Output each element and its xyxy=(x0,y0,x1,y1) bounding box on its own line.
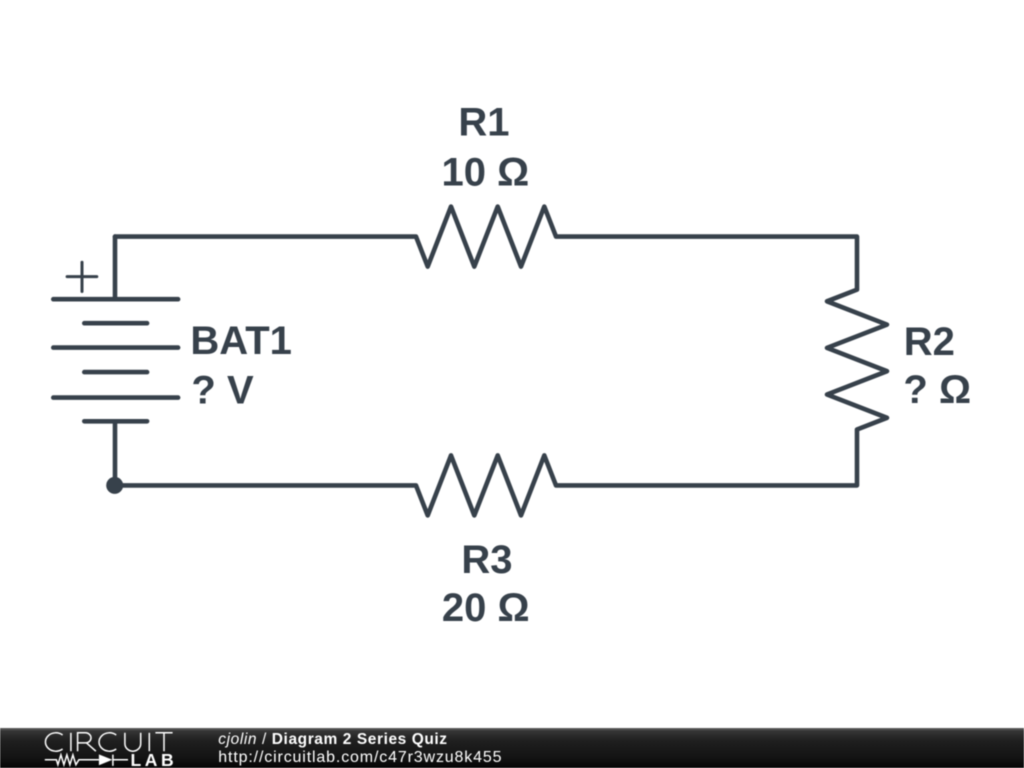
svg-text:? Ω: ? Ω xyxy=(903,368,971,412)
svg-text:R2: R2 xyxy=(904,320,955,364)
svg-text:R1: R1 xyxy=(458,100,509,144)
svg-text:BAT1: BAT1 xyxy=(190,319,291,363)
svg-text:20 Ω: 20 Ω xyxy=(442,586,530,630)
svg-text:LAB: LAB xyxy=(131,750,178,768)
svg-text:R3: R3 xyxy=(461,538,512,582)
svg-text:cjolin / Diagram 2 Series Quiz: cjolin / Diagram 2 Series Quiz xyxy=(218,731,447,748)
svg-text:10 Ω: 10 Ω xyxy=(442,150,530,194)
svg-text:? V: ? V xyxy=(191,368,254,412)
svg-text:http://circuitlab.com/c47r3wzu: http://circuitlab.com/c47r3wzu8k455 xyxy=(218,749,502,766)
